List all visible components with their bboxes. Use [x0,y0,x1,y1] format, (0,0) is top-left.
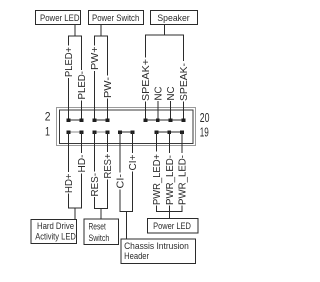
pin 14 [144,118,148,122]
svg-text:Hard Drive: Hard Drive [37,221,74,231]
svg-text:PW-: PW- [103,77,114,98]
wire pin 19 to PWR_LED- label [181,132,183,153]
svg-text:2: 2 [45,110,51,124]
svg-text:RES-: RES- [90,173,101,197]
box Chassis Intrusion Header [121,239,196,264]
wire stub PWR_LED- middle to bracket [168,206,170,212]
pin 17 [168,130,172,134]
svg-text:Power LED: Power LED [153,221,191,231]
svg-text:PWR_LED+: PWR_LED+ [152,154,163,205]
svg-text:Power LED: Power LED [40,13,80,23]
wire pin 15 to PWR_LED+ label [156,132,158,152]
pin 8 [106,118,110,122]
wire stub from Power LED box [74,25,76,37]
svg-text:Switch: Switch [89,233,110,243]
wire bracket Hard Drive Activity LED pair [69,174,82,209]
wire stub from Power Switch box [100,25,102,37]
svg-text:CI+: CI+ [128,154,139,170]
svg-text:20: 20 [200,110,210,125]
box Speaker (top) [151,11,198,25]
wire pin 9 to CI- label [119,132,121,173]
jumper line pins 6-8 [95,119,108,121]
wire SPEAK+ to pin 14 [145,102,147,121]
wire PLED- to pin 4 [81,101,83,121]
connector F_PANEL outer body [57,108,196,146]
wire stub to Reset Switch box [100,209,102,220]
wire pin 1 to HD+ label [68,132,70,172]
jumper line pins 9-11 [120,131,133,133]
pin 5 [93,130,97,134]
svg-text:NC: NC [153,87,164,101]
wire bracket Power LED trio [157,206,183,212]
wire PW+ to pin 6 [94,71,96,120]
box Hard Drive Activity LED [31,220,77,244]
pin 19 [180,130,184,134]
svg-text:CI-: CI- [116,174,127,189]
box Power LED (top) [36,11,81,25]
svg-text:PLED-: PLED- [77,71,88,100]
svg-text:PW+: PW+ [90,46,101,70]
jumper line pins 15-17-19 [157,131,183,133]
wire PW- to pin 8 [107,99,109,121]
svg-text:Power Switch: Power Switch [92,13,139,23]
svg-text:HD+: HD+ [64,173,75,193]
jumper line pins 1-3 (gray) [69,131,82,133]
svg-text:PWR_LED-: PWR_LED- [178,155,189,205]
pin 2 [67,118,71,122]
pin 4 [80,118,84,122]
svg-text:NC: NC [166,87,177,101]
box Reset Switch [84,219,119,245]
svg-text:Reset: Reset [89,221,107,231]
pin 7 [106,130,110,134]
svg-text:1: 1 [45,125,50,139]
wire stub to Hard Drive Activity LED box [74,208,76,220]
svg-text:RES+: RES+ [103,153,114,178]
pin 18 [169,118,173,122]
pin 1 [67,130,71,134]
wire bracket Speaker group [146,35,184,61]
jumper line pins 5-7 (gray) [95,131,108,133]
svg-text:HD-: HD- [77,155,88,173]
box Power LED (bottom) [148,219,199,234]
svg-text:Speaker: Speaker [157,13,189,23]
connector F_PANEL inner body [60,110,194,144]
wire bracket Reset Switch pair [95,180,108,209]
wire bracket Power Switch pair [95,36,108,76]
wire stub to Power LED box (bottom) [168,212,170,219]
wire pin 5 to RES- label [94,132,96,172]
pin 3 [80,130,84,134]
pin 15 [155,130,159,134]
svg-text:SPEAK-: SPEAK- [179,63,190,101]
wire stub from Speaker box [164,25,166,36]
pin 20 [182,118,186,122]
svg-text:PLED+: PLED+ [64,47,75,77]
wire bracket Chassis Intrusion pair [120,172,133,212]
pin 9 [118,130,122,134]
wire pin 3 to HD- label [81,132,83,153]
pin 16 [156,118,160,122]
wire pin 11 to CI+ label [132,132,134,153]
wire bracket Power LED pair [69,36,82,70]
svg-text:Header: Header [124,251,149,261]
pin 6 [93,118,97,122]
wire stub to Chassis Intrusion Header box [126,212,128,240]
svg-text:PWR_LED-: PWR_LED- [165,155,176,205]
svg-text:Activity LED: Activity LED [35,231,76,241]
jumper line pins 2-4 [69,119,82,121]
wire SPEAK- to pin 20 [183,102,185,121]
wire NC to pin 18 [170,101,172,120]
box Power Switch (top) [89,11,144,25]
svg-text:Chassis Intrusion: Chassis Intrusion [124,241,189,251]
wire PLED+ to pin 2 [68,78,70,120]
svg-text:SPEAK+: SPEAK+ [141,59,152,101]
wire pin 17 to PWR_LED- label [168,132,170,153]
wire pin 7 to RES+ label [107,132,109,152]
pin 11 [131,130,135,134]
wire NC to pin 16 [157,101,159,120]
jumper line pins 14-20 [146,119,184,121]
svg-text:19: 19 [200,125,209,140]
